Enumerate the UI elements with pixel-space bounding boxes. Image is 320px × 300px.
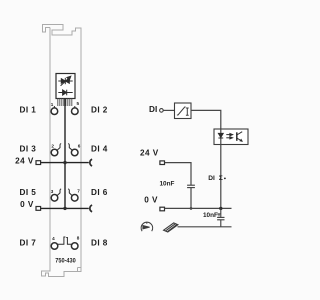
terminal circle pin8 <box>71 243 78 250</box>
svg-text:2: 2 <box>51 143 54 148</box>
svg-text:DI: DI <box>149 105 157 114</box>
svg-text:DI 4: DI 4 <box>91 144 108 153</box>
module housing outline (left terminal block, light gray) <box>42 25 82 277</box>
svg-text:8: 8 <box>77 236 80 241</box>
terminal circle pin4 <box>51 243 58 250</box>
hook pin8 <box>66 238 71 245</box>
svg-text:DI 1: DI 1 <box>20 105 37 114</box>
letter I symbol <box>186 108 189 115</box>
functional earth symbol <box>141 222 153 231</box>
connector comb under box <box>58 99 72 106</box>
svg-text:DI: DI <box>208 175 215 182</box>
terminal circle pin2 <box>51 149 58 156</box>
clamp hook pin7 <box>68 189 72 196</box>
stub pin1 to comb <box>53 106 55 108</box>
wire terminal to filter <box>163 109 174 111</box>
svg-text:750-430: 750-430 <box>55 259 76 265</box>
phototransistor <box>237 132 243 142</box>
clamp hook pin6 <box>68 144 72 151</box>
svg-text:DI 3: DI 3 <box>20 144 37 153</box>
svg-text:DI 2: DI 2 <box>91 105 108 114</box>
terminal circle pin7 <box>71 195 78 202</box>
junction C1/0V <box>190 207 193 210</box>
svg-text:0 V: 0 V <box>20 200 34 209</box>
clamp hook pin2 <box>57 144 61 151</box>
hook pin4 <box>58 237 66 244</box>
svg-text:5: 5 <box>77 101 80 106</box>
svg-text:10nF: 10nF <box>203 212 218 219</box>
svg-text:10nF: 10nF <box>160 181 175 188</box>
power jumper fork contact 24V (right) <box>90 159 92 166</box>
C1 lower stub <box>190 188 192 209</box>
svg-text:0 V: 0 V <box>144 195 158 204</box>
24V rail wire (module) <box>41 162 89 164</box>
optocoupler LED <box>218 133 223 138</box>
svg-text:DI 5: DI 5 <box>20 188 37 197</box>
svg-text:1: 1 <box>51 102 54 107</box>
filter box (current limiter) <box>175 103 192 119</box>
24V wire to capacitor branch <box>165 163 192 186</box>
svg-text:7: 7 <box>77 188 80 193</box>
internal bus wire <box>64 99 66 209</box>
terminal circle pin6 <box>71 149 78 156</box>
svg-text:4: 4 <box>52 236 55 241</box>
power jumper fork contact 0V (right) <box>90 205 92 212</box>
diode protection box U1 <box>56 74 75 99</box>
wire filter to corner <box>191 110 221 129</box>
svg-text:DI 8: DI 8 <box>91 239 108 248</box>
0V wire <box>165 207 232 209</box>
svg-text:DI 7: DI 7 <box>20 239 37 248</box>
zener diode D2 <box>58 90 72 96</box>
stub pin5 to comb <box>74 106 76 108</box>
terminal circle pin1 <box>51 108 58 115</box>
0V rail wire (module) <box>41 207 89 209</box>
input terminal circle <box>160 109 164 113</box>
svg-text:24 V: 24 V <box>140 148 159 157</box>
svg-text:DI 6: DI 6 <box>91 188 108 197</box>
24V blade contact square <box>160 161 165 165</box>
wire through optocoupler <box>220 129 222 208</box>
earth rail <box>178 226 232 228</box>
power jumper blade contact 0V (left square) <box>36 207 41 211</box>
optocoupler box U2 <box>214 129 248 145</box>
ramp symbol <box>177 107 186 115</box>
svg-text:Σ: Σ <box>219 175 223 182</box>
light arrows <box>226 134 232 139</box>
svg-text:24 V: 24 V <box>15 156 34 165</box>
clamp hook pin3 <box>57 189 61 196</box>
suppressor diode pair with arrow <box>58 76 72 86</box>
svg-text:3: 3 <box>51 189 54 194</box>
terminal circle pin3 <box>51 195 58 202</box>
0V blade contact square <box>160 207 165 211</box>
junction 0V/bus <box>63 207 66 210</box>
power jumper blade contact 24V (left square) <box>36 161 41 165</box>
junction 24V/bus <box>63 161 66 164</box>
junction DI line / 0V <box>219 207 222 210</box>
DIN rail symbol <box>164 223 178 232</box>
LED dot <box>224 178 226 180</box>
terminal circle pin5 <box>72 108 79 115</box>
svg-text:6: 6 <box>78 143 81 148</box>
capacitor C1 10nF plates <box>187 185 195 187</box>
capacitor C2 10nF to earth <box>217 208 224 226</box>
mini earth mark <box>218 214 221 216</box>
